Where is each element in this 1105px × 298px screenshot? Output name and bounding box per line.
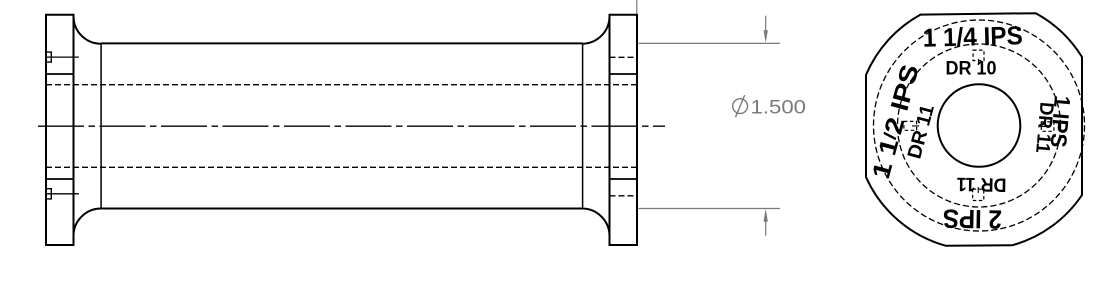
setscrew hole right centermark xyxy=(1039,126,1046,128)
right flange counterbore edge top xyxy=(610,73,638,75)
setscrew hole top (dashed box) xyxy=(973,50,984,61)
svg-text:1 1/4 IPS: 1 1/4 IPS xyxy=(922,20,1023,53)
hidden bore line bottom xyxy=(46,166,637,168)
left flange counterbore edge bottom xyxy=(46,178,74,180)
dim arrow shaft top xyxy=(765,16,767,31)
bore circle xyxy=(938,84,1021,167)
fillet top-right xyxy=(583,16,610,44)
setscrew hole bottom (dashed box) xyxy=(973,189,984,200)
left flange outline xyxy=(46,15,74,245)
setscrew top-left box xyxy=(46,52,51,62)
right flange hidden setscrew top xyxy=(610,56,638,58)
flange outline: circle with 4 flats xyxy=(866,13,1082,246)
extension line bottom xyxy=(639,208,781,210)
dim arrowhead top xyxy=(764,30,768,43)
svg-text:DR 10: DR 10 xyxy=(946,59,997,80)
fillet bottom-left xyxy=(74,209,102,237)
setscrew top-left edge dashes xyxy=(45,49,46,66)
extension line top xyxy=(639,42,781,44)
svg-text:1.500: 1.500 xyxy=(751,97,807,119)
right flange outline xyxy=(610,15,638,245)
dashed circle 1-1/2 IPS OD xyxy=(874,20,1085,231)
dashed circle barrel xyxy=(898,44,1061,207)
barrel bottom line xyxy=(101,208,582,210)
svg-text:2 IPS: 2 IPS xyxy=(943,203,1003,234)
setscrew hole top centermark xyxy=(978,59,980,65)
fillet bottom-right xyxy=(583,209,610,237)
right flange hidden setscrew bottom xyxy=(610,195,638,197)
extension line vertical above right flange xyxy=(636,0,638,14)
barrel top line xyxy=(101,42,582,44)
setscrew hole left (dashed box) xyxy=(904,121,917,130)
setscrew hole right (dashed box) xyxy=(1041,122,1054,131)
diameter symbol xyxy=(733,95,748,117)
hidden bore line top xyxy=(46,84,637,86)
centerline xyxy=(38,125,665,127)
svg-text:DR 11: DR 11 xyxy=(956,173,1007,196)
setscrew hole left centermark xyxy=(912,125,919,127)
dim arrow shaft bottom xyxy=(765,221,767,236)
left flange counterbore edge top xyxy=(46,73,74,75)
setscrew bottom-left box xyxy=(46,189,51,199)
setscrew bottom-left centerline xyxy=(45,193,79,195)
tangent edge left xyxy=(100,43,102,208)
setscrew bottom-left edge dashes xyxy=(45,185,46,202)
right flange counterbore edge bottom xyxy=(610,178,638,180)
tangent edge right xyxy=(582,43,584,208)
setscrew top-left centerline xyxy=(45,56,79,58)
setscrew hole bottom centermark xyxy=(977,187,979,193)
svg-text:DR 11: DR 11 xyxy=(1031,101,1057,154)
fillet top-left xyxy=(74,16,102,44)
dim arrowhead bottom xyxy=(764,209,768,222)
